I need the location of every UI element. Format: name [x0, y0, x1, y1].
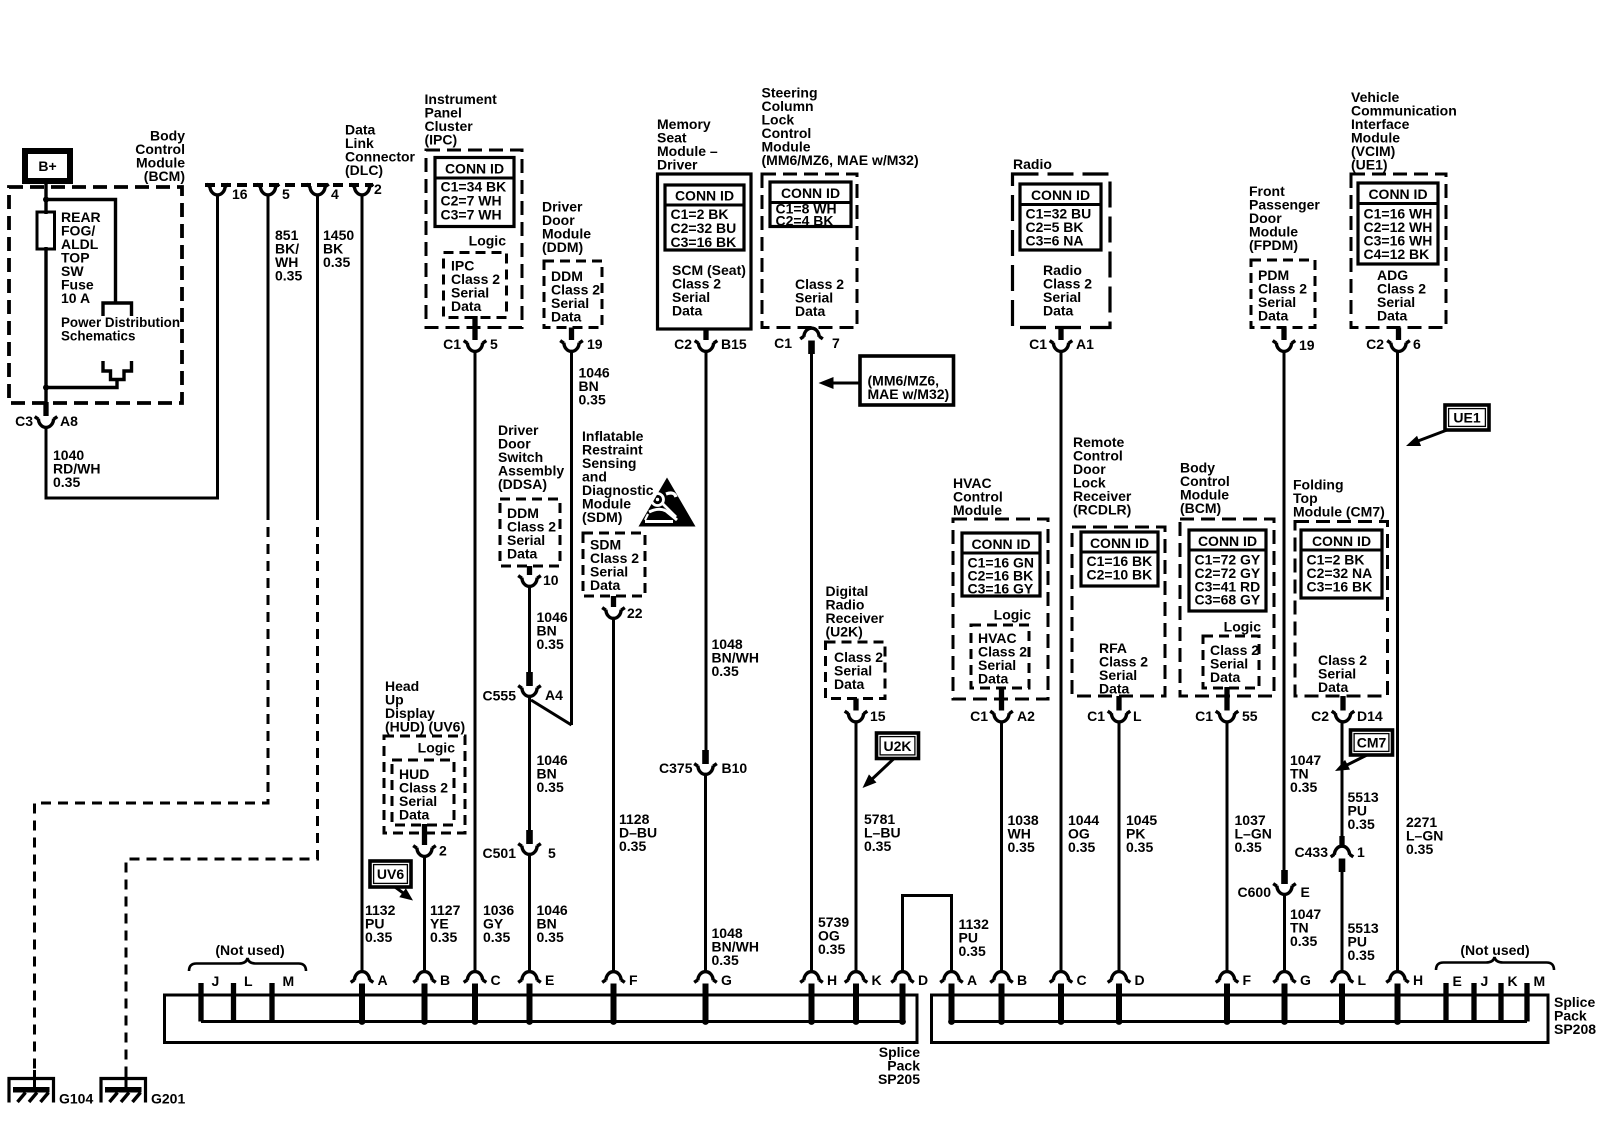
svg-text:C4=12 BK: C4=12 BK — [1364, 246, 1430, 262]
svg-text:16: 16 — [232, 186, 248, 202]
svg-text:MAE w/M32): MAE w/M32) — [868, 386, 950, 402]
wire 5513 PU from C433 to splice L SP208 — [1341, 871, 1344, 972]
connector SDM pin 22 — [611, 596, 616, 607]
arrow UV6 callout to wire — [395, 887, 408, 897]
svg-text:C501: C501 — [483, 845, 517, 861]
svg-text:0.35: 0.35 — [712, 663, 739, 679]
svg-text:L: L — [1133, 708, 1142, 724]
wire fuse to lower junction — [44, 247, 47, 389]
svg-text:E: E — [1301, 884, 1310, 900]
HUD Class 2 Serial Data logic box — [392, 760, 454, 825]
svg-text:CONN ID: CONN ID — [1368, 186, 1427, 202]
splice SP205 pin C — [464, 980, 487, 983]
svg-text:D: D — [918, 972, 928, 988]
svg-text:SP205: SP205 — [878, 1071, 920, 1087]
svg-text:C555: C555 — [483, 688, 517, 704]
svg-text:Data: Data — [795, 303, 826, 319]
module SCLC box — [762, 174, 857, 328]
splice SP205 pin A — [351, 980, 374, 983]
svg-text:UV6: UV6 — [377, 866, 404, 882]
svg-text:0.35: 0.35 — [818, 941, 845, 957]
wire 1450 BK from DLC pin 4 — [316, 194, 319, 510]
svg-text:0.35: 0.35 — [1126, 839, 1153, 855]
RCDLR CONN ID table — [1081, 532, 1158, 586]
connector DLC dashed line — [205, 183, 373, 187]
svg-text:0.35: 0.35 — [579, 392, 606, 408]
svg-text:C1: C1 — [774, 335, 792, 351]
svg-text:C375: C375 — [659, 760, 693, 776]
connector IPC C1 pin 5 — [472, 316, 477, 340]
svg-text:0.35: 0.35 — [1008, 839, 1035, 855]
svg-text:Module: Module — [953, 502, 1002, 518]
arrow UE1 callout to wire — [1414, 430, 1447, 443]
svg-text:2: 2 — [374, 181, 382, 197]
wire 1048 BN/WH from C375 to splice G — [704, 773, 707, 972]
connector BCM C1 pin 55 — [1224, 687, 1229, 711]
brace (Not used) right — [1436, 957, 1554, 970]
svg-text:G: G — [1300, 972, 1311, 988]
svg-text:CONN ID: CONN ID — [1198, 533, 1257, 549]
arrow U2K callout to wire — [869, 759, 894, 783]
wire 1038 WH from HVAC to splice B SP208 — [1000, 722, 1003, 972]
connector HVAC C1 pin A2 — [999, 687, 1004, 711]
VCIM CONN ID table — [1358, 183, 1438, 264]
svg-text:Data: Data — [1377, 308, 1408, 324]
svg-text:0.35: 0.35 — [712, 952, 739, 968]
svg-text:Logic: Logic — [994, 607, 1032, 623]
svg-text:C1: C1 — [443, 336, 461, 352]
svg-text:0.35: 0.35 — [537, 929, 564, 945]
svg-text:CONN ID: CONN ID — [675, 188, 734, 204]
SCM CONN ID table — [665, 185, 744, 250]
wire 1127 YE from HUD to splice B — [423, 856, 426, 972]
wire 5739 OG from SCLC to splice H — [810, 353, 813, 972]
callout box UE1 — [1445, 405, 1489, 430]
wire 1047 TN from FPDM to C600 — [1283, 351, 1286, 872]
HVAC CONN ID table — [962, 533, 1040, 596]
svg-text:Data: Data — [834, 676, 865, 692]
module U2K Class 2 Serial Data box — [826, 642, 886, 699]
module DDM Class 2 Serial Data box — [544, 261, 602, 328]
svg-text:C: C — [1077, 972, 1087, 988]
svg-text:(RCDLR): (RCDLR) — [1073, 502, 1131, 518]
svg-text:(IPC): (IPC) — [425, 132, 458, 148]
svg-text:5: 5 — [490, 336, 498, 352]
svg-text:C1: C1 — [1195, 708, 1213, 724]
svg-text:C3=16 BK: C3=16 BK — [671, 234, 737, 250]
connector DLC pin 4 — [306, 184, 329, 187]
connector C433 pin 1 — [1331, 854, 1354, 857]
svg-text:E: E — [545, 972, 554, 988]
svg-text:15: 15 — [870, 708, 886, 724]
svg-text:(DLC): (DLC) — [345, 162, 383, 178]
splice SP205 pin F — [602, 980, 625, 983]
IPC CONN ID table — [435, 158, 514, 227]
splice SP205 pin E — [518, 980, 541, 983]
module SDM Class 2 Serial Data box — [583, 533, 645, 596]
svg-text:Logic: Logic — [1224, 619, 1262, 635]
svg-text:B10: B10 — [722, 760, 748, 776]
svg-text:CONN ID: CONN ID — [1090, 535, 1149, 551]
svg-text:(Not used): (Not used) — [215, 942, 284, 958]
svg-text:E: E — [1453, 973, 1462, 989]
svg-text:4: 4 — [331, 186, 339, 202]
splice SP208 pin G — [1273, 980, 1296, 983]
HVAC Class 2 Serial Data logic box — [971, 625, 1029, 688]
fuse REAR FOG/ALDL TOP SW 10 A — [37, 212, 55, 249]
svg-text:2: 2 — [439, 843, 447, 859]
svg-text:A2: A2 — [1017, 708, 1035, 724]
svg-text:H: H — [827, 972, 837, 988]
svg-text:L: L — [244, 973, 253, 989]
connector U2K pin 15 — [853, 699, 858, 711]
arrow MM6 callout to wire — [832, 382, 860, 385]
wire 1045 PK from RCDLR to splice D SP208 — [1118, 722, 1121, 972]
wire lower bracket to junction — [46, 380, 117, 388]
connector SCLC C1 pin 7 — [800, 336, 823, 339]
svg-text:G104: G104 — [59, 1091, 93, 1107]
svg-text:Logic: Logic — [469, 233, 507, 249]
brace (Not used) left — [189, 958, 306, 971]
module BCM power box (dashed) — [9, 187, 182, 403]
svg-text:(DDSA): (DDSA) — [498, 476, 547, 492]
svg-text:(FPDM): (FPDM) — [1249, 237, 1298, 253]
svg-text:A: A — [967, 972, 977, 988]
icon SRS warning triangle — [639, 478, 696, 527]
splice SP208 pin C — [1050, 980, 1073, 983]
connector VCIM C2 pin 6 — [1396, 328, 1401, 341]
splice pack SP205 internal bus — [201, 1020, 903, 1023]
SCLC CONN ID table — [770, 182, 851, 227]
IPC Class 2 Serial Data logic box — [444, 253, 507, 318]
svg-text:10 A: 10 A — [61, 290, 90, 306]
svg-text:(UE1): (UE1) — [1351, 157, 1388, 173]
svg-text:CONN ID: CONN ID — [781, 185, 840, 201]
svg-text:0.35: 0.35 — [1290, 933, 1317, 949]
svg-text:C1: C1 — [1087, 708, 1105, 724]
module BCM lower box — [1180, 519, 1274, 696]
node fuse feed junction — [43, 197, 49, 203]
splice pack SP208 enclosure — [932, 995, 1549, 1043]
wire 1128 D-BU from SDM to splice F — [612, 618, 615, 972]
splice SP208 unused pin E — [1443, 983, 1448, 1022]
svg-text:C3=68 GY: C3=68 GY — [1195, 592, 1261, 608]
wire BCM to connector C3 pin A8 — [44, 388, 47, 417]
svg-text:(MM6/MZ6, MAE w/M32): (MM6/MZ6, MAE w/M32) — [762, 152, 919, 168]
svg-text:Data: Data — [507, 546, 538, 562]
module DDSA DDM Class 2 Serial Data box — [500, 499, 560, 566]
svg-text:Schematics: Schematics — [61, 329, 135, 344]
battery feed B+ — [25, 151, 70, 181]
wire B+ to fuse — [44, 181, 47, 214]
wire 1044 OG from Radio to splice C SP208 — [1060, 351, 1063, 972]
svg-text:C600: C600 — [1238, 884, 1272, 900]
svg-text:U2K: U2K — [883, 738, 911, 754]
svg-text:(HUD) (UV6): (HUD) (UV6) — [385, 719, 465, 735]
splice SP208 unused pin M — [1524, 983, 1529, 1022]
arrow CM7 callout to wire — [1341, 755, 1367, 768]
splice pack SP205 enclosure — [165, 995, 918, 1043]
wire class 2 data from DLC pin 2 to splice A — [361, 194, 364, 972]
svg-text:0.35: 0.35 — [53, 474, 80, 490]
svg-text:0.35: 0.35 — [1290, 779, 1317, 795]
svg-text:CONN ID: CONN ID — [971, 536, 1030, 552]
wire 1046 BN from DDSA pin 10 to C555 — [528, 587, 531, 677]
svg-text:Module (CM7): Module (CM7) — [1293, 504, 1385, 520]
svg-text:F: F — [1243, 972, 1252, 988]
wire 5781 L-BU from U2K to splice K — [855, 722, 858, 972]
module Radio box — [1013, 174, 1111, 328]
svg-text:Data: Data — [451, 298, 482, 314]
svg-text:0.35: 0.35 — [959, 943, 986, 959]
svg-text:C2: C2 — [1311, 708, 1329, 724]
BCM CONN ID table — [1189, 530, 1266, 611]
svg-text:0.35: 0.35 — [275, 268, 302, 284]
svg-text:C3=16 GY: C3=16 GY — [968, 581, 1034, 597]
Power Distribution lower bracket — [103, 361, 132, 380]
svg-text:(BCM): (BCM) — [1180, 500, 1221, 516]
connector FPDM pin 19 — [1281, 328, 1286, 341]
svg-text:D: D — [1135, 972, 1145, 988]
svg-text:19: 19 — [1299, 337, 1315, 353]
wire 1046 BN from C501 to splice E — [528, 854, 531, 972]
connector C501 pin 5 — [518, 844, 541, 847]
splice SP208 pin H — [1386, 980, 1409, 983]
svg-text:(Not used): (Not used) — [1460, 942, 1529, 958]
svg-text:Logic: Logic — [418, 740, 456, 756]
module HUD box — [384, 736, 465, 833]
svg-text:H: H — [1413, 972, 1423, 988]
wire IPC to splice C — [474, 351, 477, 972]
ground G104 — [33, 1070, 36, 1090]
svg-text:22: 22 — [627, 605, 643, 621]
callout box UV6 — [370, 861, 411, 887]
callout box CM7 — [1351, 730, 1393, 755]
svg-text:10: 10 — [543, 572, 559, 588]
connector DLC pin 16 — [206, 184, 229, 187]
wire 1037 L-GN from BCM to splice F SP208 — [1226, 722, 1229, 972]
module CM7 box — [1295, 522, 1388, 697]
svg-text:Data: Data — [1099, 681, 1130, 697]
Power Distribution upper bracket — [103, 303, 132, 316]
wire 1047 TN from C600 to splice G SP208 — [1283, 894, 1286, 972]
svg-text:CONN ID: CONN ID — [1031, 187, 1090, 203]
svg-text:C2=4 BK: C2=4 BK — [776, 213, 834, 229]
callout box U2K — [877, 733, 919, 759]
connector RCDLR C1 pin L — [1116, 696, 1121, 711]
svg-text:M: M — [283, 973, 295, 989]
svg-text:Data: Data — [978, 671, 1009, 687]
svg-text:CM7: CM7 — [1357, 735, 1387, 751]
connector C375 pin B10 — [694, 764, 717, 767]
svg-text:J: J — [212, 973, 220, 989]
splice SP208 unused pin J — [1471, 983, 1476, 1022]
svg-text:A1: A1 — [1076, 336, 1094, 352]
splice SP205 pin K — [845, 980, 868, 983]
svg-text:SP208: SP208 — [1554, 1021, 1596, 1037]
svg-text:Data: Data — [672, 303, 703, 319]
svg-text:B15: B15 — [721, 336, 747, 352]
svg-text:Data: Data — [1043, 303, 1074, 319]
svg-text:(U2K): (U2K) — [826, 624, 863, 640]
svg-text:(BCM): (BCM) — [144, 168, 185, 184]
connector C555 pin A4 — [518, 686, 541, 689]
splice SP205 unused pin J — [198, 983, 203, 1022]
svg-text:Data: Data — [590, 577, 621, 593]
svg-text:C2: C2 — [674, 336, 692, 352]
connector Radio C1 pin A1 — [1058, 328, 1063, 341]
connector C3 pin A8 — [35, 417, 58, 420]
svg-text:B: B — [440, 972, 450, 988]
svg-text:0.35: 0.35 — [537, 779, 564, 795]
svg-text:M: M — [1534, 973, 1546, 989]
connector HUD pin 2 — [422, 824, 427, 845]
svg-text:C2: C2 — [1366, 336, 1384, 352]
svg-text:B+: B+ — [38, 158, 56, 174]
svg-text:CONN ID: CONN ID — [1312, 533, 1371, 549]
splice SP205 pin B — [413, 980, 436, 983]
svg-text:0.35: 0.35 — [1348, 816, 1375, 832]
wire 1132 PU jumper splice D SP205 to splice A SP208 — [903, 896, 952, 973]
svg-text:(DDM): (DDM) — [542, 239, 583, 255]
module SCM box — [658, 174, 752, 329]
svg-text:A4: A4 — [545, 687, 563, 703]
svg-text:0.35: 0.35 — [619, 838, 646, 854]
splice SP205 unused pin M — [269, 983, 274, 1022]
svg-text:Radio: Radio — [1013, 156, 1052, 172]
splice SP205 pin D — [891, 980, 914, 983]
module HVAC box — [953, 519, 1048, 699]
svg-text:Data: Data — [1318, 679, 1349, 695]
splice SP208 pin A — [940, 980, 963, 983]
splice SP208 pin D — [1108, 980, 1131, 983]
svg-text:19: 19 — [587, 336, 603, 352]
svg-text:J: J — [1481, 973, 1489, 989]
wire 5513 PU from CM7 to C433 — [1341, 722, 1344, 847]
svg-text:C3=6 NA: C3=6 NA — [1026, 233, 1084, 249]
svg-text:C3: C3 — [15, 413, 33, 429]
svg-text:K: K — [872, 972, 882, 988]
svg-text:C2=10 BK: C2=10 BK — [1087, 567, 1153, 583]
svg-text:0.35: 0.35 — [323, 254, 350, 270]
wire 1048 BN/WH from SCM to C375 — [705, 351, 708, 752]
svg-text:C433: C433 — [1295, 844, 1329, 860]
svg-text:B: B — [1017, 972, 1027, 988]
splice pack SP208 internal bus — [952, 1020, 1528, 1023]
svg-text:(SDM): (SDM) — [582, 509, 622, 525]
svg-text:Driver: Driver — [657, 157, 698, 173]
connector DDM pin 19 — [569, 328, 574, 341]
svg-text:C1: C1 — [1029, 336, 1047, 352]
svg-text:CONN ID: CONN ID — [445, 161, 504, 177]
splice SP205 pin G — [694, 980, 717, 983]
node lower junction — [43, 385, 49, 391]
svg-text:A8: A8 — [60, 413, 78, 429]
wire 851 BK/WH from DLC pin 5 — [267, 194, 270, 510]
connector DLC pin 2 — [351, 184, 374, 187]
module RCDLR box — [1072, 527, 1165, 696]
connector DLC pin 5 — [257, 184, 280, 187]
wire branch to Power Distribution reference — [46, 200, 116, 302]
svg-text:6: 6 — [1413, 336, 1421, 352]
svg-text:L: L — [1358, 972, 1367, 988]
module IPC box — [426, 150, 522, 328]
svg-text:55: 55 — [1242, 708, 1258, 724]
svg-text:C3=16 BK: C3=16 BK — [1307, 579, 1373, 595]
svg-text:0.35: 0.35 — [365, 929, 392, 945]
svg-text:0.35: 0.35 — [1068, 839, 1095, 855]
svg-text:0.35: 0.35 — [537, 636, 564, 652]
ground G201 — [125, 1070, 128, 1090]
svg-text:0.35: 0.35 — [1406, 841, 1433, 857]
wire 1046 BN from C555 to C501 — [528, 696, 531, 835]
connector SCM C2 pin B15 — [703, 329, 708, 340]
CM7 CONN ID table — [1301, 530, 1382, 598]
callout box MM6/MZ6 MAE w/M32 — [860, 356, 954, 405]
connector CM7 C2 pin D14 — [1340, 696, 1345, 711]
svg-text:Data: Data — [551, 309, 582, 325]
splice SP208 pin F — [1216, 980, 1239, 983]
wire 1040 RD/WH from C3-A8 to DLC pin 16 wire — [46, 194, 218, 498]
svg-text:D14: D14 — [1357, 708, 1383, 724]
svg-text:Data: Data — [1258, 308, 1289, 324]
splice SP208 pin B — [990, 980, 1013, 983]
svg-text:Data: Data — [1210, 669, 1241, 685]
splice SP205 pin H — [800, 980, 823, 983]
BCM Class 2 Serial Data logic box — [1203, 636, 1259, 688]
svg-text:C: C — [491, 972, 501, 988]
svg-text:7: 7 — [832, 335, 840, 351]
svg-text:Data: Data — [399, 807, 430, 823]
svg-text:0.35: 0.35 — [430, 929, 457, 945]
connector C600 pin E — [1273, 884, 1296, 887]
svg-text:F: F — [629, 972, 638, 988]
splice SP208 unused pin K — [1498, 983, 1503, 1022]
svg-text:K: K — [1508, 973, 1518, 989]
splice SP205 unused pin L — [231, 983, 236, 1022]
svg-text:0.35: 0.35 — [864, 838, 891, 854]
svg-text:G201: G201 — [151, 1091, 185, 1107]
Radio CONN ID table — [1020, 184, 1101, 250]
module VCIM box — [1351, 174, 1446, 328]
svg-text:0.35: 0.35 — [1348, 947, 1375, 963]
svg-text:1: 1 — [1357, 844, 1365, 860]
svg-text:5: 5 — [548, 845, 556, 861]
svg-text:0.35: 0.35 — [1235, 839, 1262, 855]
svg-text:5: 5 — [282, 186, 290, 202]
svg-text:A: A — [378, 972, 388, 988]
splice SP208 pin L — [1331, 980, 1354, 983]
svg-text:G: G — [721, 972, 732, 988]
connector DDSA pin 10 — [527, 566, 532, 575]
wire 1046 BN from DDM pin 19 to C555 — [570, 351, 573, 725]
svg-text:C1: C1 — [970, 708, 988, 724]
svg-text:C3=7 WH: C3=7 WH — [441, 207, 502, 223]
svg-text:UE1: UE1 — [1453, 410, 1480, 426]
wire 2271 L-GN from VCIM to splice H SP208 — [1396, 351, 1399, 972]
svg-text:0.35: 0.35 — [483, 929, 510, 945]
module PDM Class 2 Serial Data box — [1251, 260, 1315, 328]
